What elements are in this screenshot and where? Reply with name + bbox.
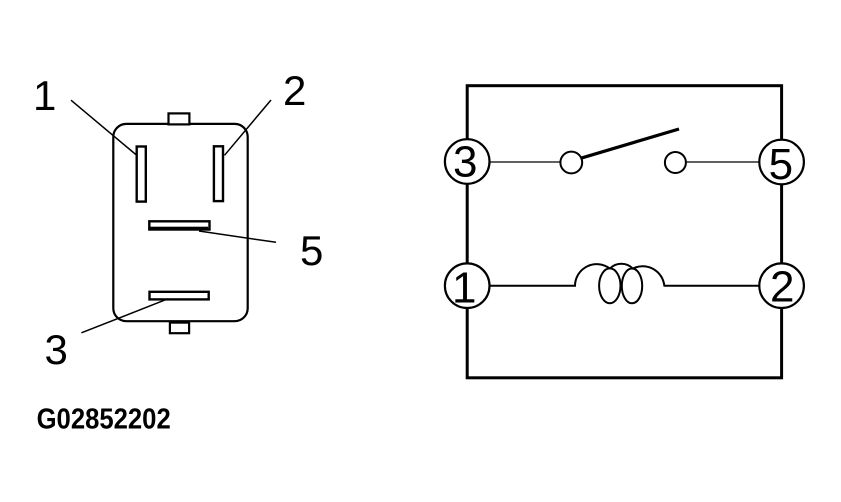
- svg-text:1: 1: [452, 263, 476, 312]
- leader line pin 3: [81, 299, 167, 333]
- svg-text:G02852202: G02852202: [37, 402, 171, 435]
- leader line pin 5: [199, 231, 276, 242]
- svg-text:5: 5: [300, 227, 323, 274]
- terminal 3: [445, 138, 490, 187]
- pin 3 terminal slot: [150, 292, 209, 300]
- switch stationary contact left: [560, 152, 582, 174]
- svg-text:2: 2: [770, 263, 794, 312]
- leader line pin 2: [225, 100, 272, 155]
- relay coil: [575, 264, 664, 304]
- pin 5 terminal slot: [149, 221, 210, 230]
- connector bottom tab: [170, 323, 189, 334]
- svg-text:1: 1: [33, 72, 56, 119]
- wire coil to terminal 2: [664, 285, 761, 287]
- svg-text:2: 2: [283, 67, 306, 114]
- wire terminal 1 to coil: [489, 285, 576, 287]
- switch stationary contact right: [665, 152, 686, 173]
- schematic enclosure box: [467, 86, 781, 378]
- svg-text:3: 3: [453, 138, 477, 187]
- pin 2 terminal slot: [214, 146, 223, 201]
- wire switch to terminal 5: [686, 161, 761, 163]
- terminal 1: [445, 263, 490, 312]
- svg-text:5: 5: [769, 140, 793, 189]
- wire terminal 3 to switch: [489, 161, 561, 163]
- relay connector body: [113, 124, 247, 321]
- connector top tab: [169, 113, 190, 124]
- pin 1 terminal slot: [137, 147, 146, 202]
- leader line pin 1: [71, 100, 136, 154]
- switch blade: [581, 129, 680, 158]
- terminal 5: [759, 140, 804, 190]
- svg-text:3: 3: [45, 326, 68, 373]
- terminal 2: [759, 263, 804, 312]
